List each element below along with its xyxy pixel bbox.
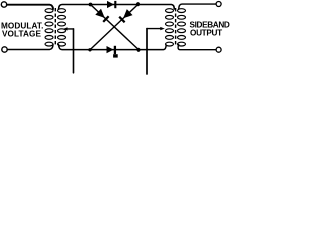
wire bottom-right output <box>178 45 216 50</box>
wire top-left input <box>7 5 53 9</box>
transformer T1 primary winding <box>45 9 53 46</box>
transformer T1 secondary winding <box>58 9 66 46</box>
center tap T2 (arrow + wire) <box>147 27 165 30</box>
wire bottom rail (T1 secondary bottom to T2 left bottom) <box>59 45 167 50</box>
terminal bottom-right <box>216 47 221 52</box>
terminal top-right <box>216 2 221 7</box>
center tap T1 (arrow + wire) <box>63 27 74 30</box>
wire diagonal A to D <box>91 5 139 50</box>
wire bottom-left input <box>7 45 53 50</box>
transformer T2 left winding <box>166 9 174 46</box>
node B top-right junction <box>136 2 140 6</box>
svg-text:VOLTAGE: VOLTAGE <box>2 30 41 39</box>
wire carrier lead right <box>146 29 148 74</box>
terminal bottom-left <box>2 47 7 52</box>
transformer T1 core <box>54 8 56 47</box>
node D bottom-right junction <box>136 48 140 52</box>
wire top-right output <box>179 4 216 9</box>
diode D4 on B-C diagonal (pointing down-left) <box>119 9 132 22</box>
transformer T2 core <box>175 8 177 47</box>
wire diagonal B to C <box>90 4 138 50</box>
transformer T2 right winding <box>178 9 186 46</box>
diode D3 on A-D diagonal (pointing down-right) <box>95 9 108 22</box>
wire carrier lead left <box>73 29 75 73</box>
terminal top-left <box>1 2 6 7</box>
diode D2 bottom (on bottom rail, pointing right) <box>107 46 118 58</box>
svg-text:OUTPUT: OUTPUT <box>190 29 222 38</box>
wire top rail (T1 secondary top to T2 left top) <box>59 5 175 10</box>
diode D1 top (on top rail, pointing right) <box>107 1 115 8</box>
node C bottom-left junction <box>88 48 91 51</box>
node A top-left junction <box>89 3 93 7</box>
